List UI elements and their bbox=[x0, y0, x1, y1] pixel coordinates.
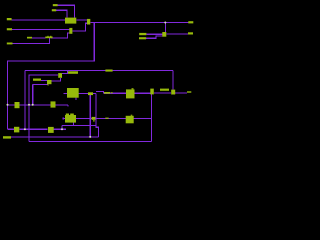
wire node C to U2 lower-left pin bbox=[51, 33, 70, 38]
wire X1 to X2 bbox=[20, 104, 51, 106]
wire U6 left pin tick bbox=[62, 117, 64, 119]
wire label NET6 up to node C bbox=[13, 38, 50, 43]
IC U6 body bbox=[65, 115, 76, 123]
B2 bottom stub pin bbox=[47, 84, 50, 85]
junction rail x33 bbox=[32, 104, 34, 106]
wire stub into U3 left pin bbox=[63, 92, 67, 94]
wire vertical under C1 down to L1 bbox=[89, 95, 91, 137]
wire U1 right pin to R1 bbox=[76, 19, 87, 21]
resistor X2 bbox=[51, 101, 56, 107]
label IN1 bbox=[7, 18, 12, 20]
wire vertical rail x25 bbox=[24, 70, 26, 129]
label NET11 bbox=[160, 89, 169, 91]
junction on left rail bbox=[7, 104, 9, 106]
wire to B1 left pin and rail x29 down bbox=[29, 75, 58, 141]
label NET14 at wire cross bbox=[92, 117, 96, 120]
wire R1 output bus across top bbox=[90, 22, 188, 24]
op-amp U1 bbox=[65, 18, 76, 24]
wire label NET7 to B2 left pin bbox=[41, 79, 47, 81]
label NET12 bbox=[187, 91, 191, 92]
U6 top tab 2 bbox=[70, 114, 74, 116]
resistor X1 bbox=[15, 102, 20, 108]
transistor B1 bbox=[58, 73, 62, 78]
node C marks bbox=[45, 37, 52, 39]
label NET7 bbox=[33, 79, 41, 81]
wire D1 right pin to output label bbox=[166, 33, 188, 35]
transistor Q1 bbox=[171, 90, 175, 95]
wire left rail to X1 bbox=[8, 104, 15, 106]
label NET4 bbox=[139, 37, 146, 39]
label OUT1 bbox=[188, 21, 193, 23]
wire U4 right pin to node D bbox=[135, 92, 152, 94]
resistor R1 bbox=[87, 19, 90, 25]
label NET15 dash bbox=[105, 118, 108, 119]
hier pin P1 bbox=[150, 89, 154, 95]
wire C1 to vertical B with top jog bbox=[93, 92, 104, 94]
wire U6 bottom pin to sub bus bbox=[73, 123, 75, 126]
label CLK1 bbox=[53, 4, 58, 6]
wire label NET5 to node C bbox=[32, 37, 46, 39]
transistor B2 bbox=[47, 80, 52, 84]
wire node D to Q1 left pin bbox=[154, 92, 171, 94]
wire to U4 left pin bbox=[104, 92, 127, 94]
wire net CLK1 to U1 top pin 1 bbox=[58, 5, 75, 18]
label NET3 bbox=[139, 33, 146, 35]
wire junction at node B down to D1 top pin bbox=[164, 23, 166, 33]
resistor X3 bbox=[14, 127, 19, 133]
resistor X4 bbox=[48, 127, 54, 133]
wire B2 right pin to B1 bottom pin bbox=[52, 78, 61, 81]
junction sub bus bbox=[61, 128, 63, 130]
capacitor C1 bbox=[88, 92, 93, 95]
wire U3 bottom stub bbox=[75, 98, 77, 100]
wire vertical B with jog down to L1 corner bbox=[96, 93, 99, 137]
wire sub bus under U6 bbox=[62, 126, 96, 130]
label NET13 bbox=[3, 136, 11, 138]
U5 top tab bbox=[131, 115, 133, 116]
wire U3 right pin to C1 bbox=[79, 93, 88, 95]
wire net CLK2 to U1 top pin 2 bbox=[56, 10, 67, 18]
wire drop to Q2 top pin bbox=[172, 70, 174, 89]
wire B1 right pin up to mid bus bbox=[62, 70, 68, 73]
wire X4 right end bbox=[54, 128, 66, 130]
label IN2 bbox=[7, 28, 12, 30]
wire X2 right with end stub bbox=[56, 105, 69, 107]
junction rail x29 bbox=[28, 104, 30, 106]
wire label NET3 to D1 left pin bbox=[146, 33, 162, 35]
wire L2 bottommost net bbox=[29, 140, 151, 142]
label NET6 bbox=[7, 43, 13, 45]
junction rail x25 bottom bbox=[24, 128, 26, 130]
wire B2 bottom stub down rail x33 bbox=[33, 84, 48, 104]
diode D1 bbox=[162, 32, 166, 37]
junction node B bbox=[164, 22, 166, 24]
wire net IN1 to U1 left pin bbox=[12, 19, 66, 21]
label NET8 on mid bus bbox=[105, 70, 112, 72]
wire L1 bottom net bbox=[11, 136, 98, 138]
U4 top tab bbox=[132, 88, 134, 89]
wire U2 right pin up to R1 left-bottom pin bbox=[72, 23, 87, 31]
label CLK2 bbox=[52, 9, 56, 11]
IC U4 bbox=[126, 89, 135, 98]
IC U5 bbox=[126, 116, 134, 124]
label NET10 on wire bbox=[104, 92, 110, 94]
label NET9 under mid bus bbox=[68, 71, 78, 74]
wire label NET4 step up to D1 left pin 2 bbox=[146, 36, 162, 38]
capacitor U2 bbox=[69, 28, 72, 34]
wire corner to X3 bbox=[8, 128, 15, 130]
wire mid horizontal bus to right drop bbox=[25, 69, 173, 71]
wire long vertical from node A down and across to left rail bbox=[8, 23, 95, 130]
label OUT2 bbox=[188, 32, 193, 34]
U6 top tab 1 bbox=[66, 114, 69, 116]
op-amp U3 bbox=[67, 88, 79, 98]
label NET5 bbox=[27, 37, 32, 39]
wire net IN2 to U2 left pin bbox=[12, 28, 69, 30]
wire X3 to X4 bbox=[19, 128, 47, 130]
junction L1 bbox=[89, 136, 91, 138]
wire vertical rail x151 down to bottom bus bbox=[150, 92, 152, 141]
wire long bottom bus into rail x151 bbox=[63, 118, 151, 120]
wire Q1 right pin to label bbox=[175, 92, 187, 94]
